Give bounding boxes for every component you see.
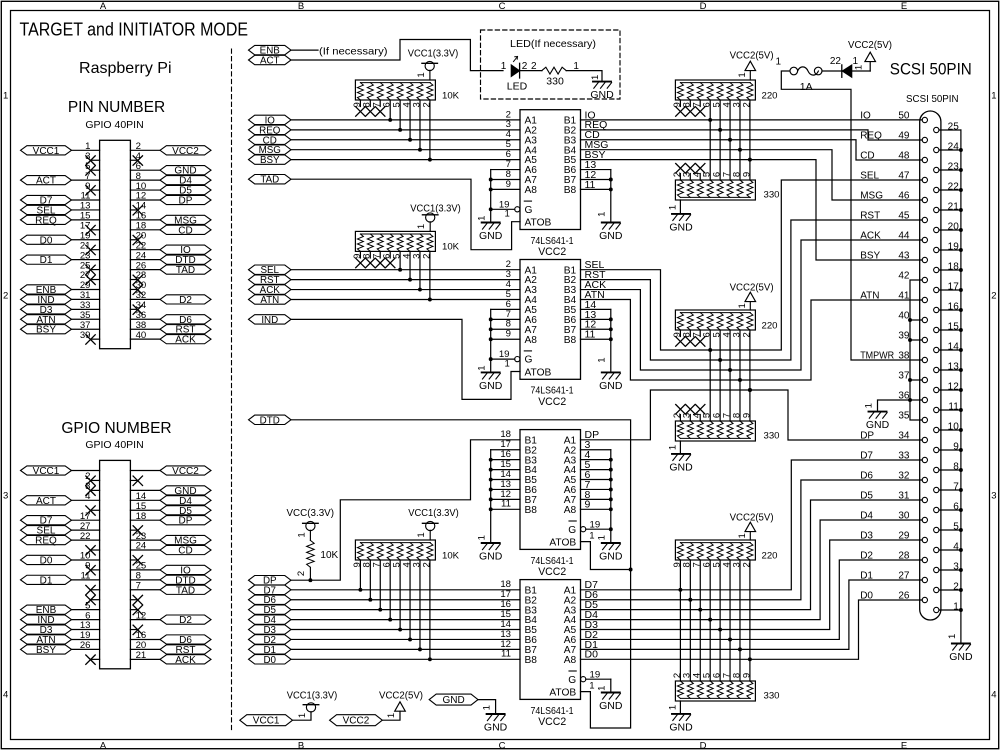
J2 wire right pin row 8 xyxy=(130,539,160,541)
svg-text:4: 4 xyxy=(953,541,959,552)
ground RN9 xyxy=(672,713,690,715)
svg-text:24: 24 xyxy=(948,141,960,152)
svg-text:4: 4 xyxy=(3,690,8,701)
RN6 330 unused pin no-connect xyxy=(686,405,695,414)
svg-text:ACK: ACK xyxy=(860,230,881,241)
svg-text:D2: D2 xyxy=(179,615,192,626)
svg-text:10: 10 xyxy=(948,421,960,432)
svg-text:22: 22 xyxy=(830,56,842,67)
J2 wire right pin row 19 xyxy=(130,648,160,650)
J3 pin 18 wire and number xyxy=(939,269,961,271)
svg-text:ATN: ATN xyxy=(860,290,879,301)
svg-text:4: 4 xyxy=(991,690,996,701)
J3 pin 21 contact xyxy=(934,207,939,212)
svg-text:1: 1 xyxy=(737,72,748,77)
svg-text:ACK: ACK xyxy=(175,655,196,666)
J1 no-connect left row 20 xyxy=(91,338,100,340)
svg-text:10K: 10K xyxy=(442,550,460,561)
J1 wire left pin row 18 xyxy=(72,318,100,320)
ground LED circuit xyxy=(593,81,611,83)
svg-text:40: 40 xyxy=(136,330,147,341)
J2 pin row 1 left label VCC1 xyxy=(21,466,72,475)
J1 wire right pin row 1 xyxy=(130,149,160,151)
resistor network RN7 10K body xyxy=(355,540,435,560)
svg-text:43: 43 xyxy=(898,250,910,261)
J2 pin row 3 right label GND xyxy=(160,486,211,495)
RN4 unused pin stubs xyxy=(359,251,361,258)
svg-text:10K: 10K xyxy=(442,242,460,253)
J3 pin 12 contact xyxy=(934,387,939,392)
J1 pin row 19 left label BSY xyxy=(21,325,72,334)
net IND (hexagon to U2 pin1 DIR) xyxy=(249,315,292,324)
svg-text:E: E xyxy=(901,1,907,12)
svg-text:1: 1 xyxy=(416,532,427,537)
svg-text:ATOB: ATOB xyxy=(549,687,576,698)
svg-text:GND: GND xyxy=(599,230,623,242)
J2 wire right pin row 6 xyxy=(130,519,160,521)
svg-text:VCC1(3.3V): VCC1(3.3V) xyxy=(287,691,338,702)
svg-text:VCC1: VCC1 xyxy=(253,716,280,727)
J1 pin row 10 left label D0 xyxy=(21,235,72,244)
svg-text:D1: D1 xyxy=(860,570,873,581)
J3 pin 2 wire and number xyxy=(939,589,961,591)
svg-text:B: B xyxy=(298,740,304,750)
svg-text:29: 29 xyxy=(898,530,910,541)
J1 no-connect right row 10 xyxy=(130,239,137,241)
svg-text:C: C xyxy=(499,740,506,750)
J3 ground spur from pin36 xyxy=(878,400,911,412)
RN5 220 unused pin no-connect xyxy=(696,337,705,346)
J1 pin row 16 left label IND xyxy=(21,295,72,304)
svg-text:1: 1 xyxy=(3,91,8,102)
wire diode to VCC2 xyxy=(852,70,870,72)
svg-text:D0: D0 xyxy=(263,655,276,666)
svg-text:330: 330 xyxy=(764,190,780,201)
svg-text:1: 1 xyxy=(416,72,427,77)
J2 pin row 4 right label D4 xyxy=(160,496,211,505)
J3 pin 23 contact xyxy=(934,167,939,172)
J3 pin 46 contact xyxy=(922,197,927,202)
U3 unused outputs A2-A8 to ground xyxy=(581,449,611,451)
J2 wire right pin row 20 xyxy=(130,658,160,660)
J3 pin 3 wire and number xyxy=(939,569,961,571)
U1 G wire xyxy=(491,208,515,210)
svg-text:TARGET and INITIATOR MODE: TARGET and INITIATOR MODE xyxy=(20,18,249,39)
svg-text:20: 20 xyxy=(948,221,960,232)
resistor network RN9 330 body xyxy=(675,681,755,701)
svg-text:ATOB: ATOB xyxy=(549,537,576,548)
J2 wire left pin row 1 xyxy=(72,470,100,472)
J2 no-connect right row 14 xyxy=(130,599,137,601)
J1 no-connect left row 5 xyxy=(91,189,100,191)
svg-text:MSG: MSG xyxy=(860,190,883,201)
svg-text:1: 1 xyxy=(947,634,958,639)
IC U2 74LS641-1 body xyxy=(520,260,581,380)
J3 pin 14 wire and number xyxy=(939,349,961,351)
J2 no-connect left row 13 xyxy=(91,589,100,591)
wire R5 to ground xyxy=(566,71,602,82)
J3 pin 25 wire and number xyxy=(939,129,961,131)
svg-text:330: 330 xyxy=(546,75,564,87)
J1 wire right pin row 3 xyxy=(130,169,160,171)
net ATN bus left xyxy=(249,295,292,304)
svg-text:GPIO NUMBER: GPIO NUMBER xyxy=(61,420,171,437)
svg-text:26: 26 xyxy=(80,640,91,651)
svg-text:D4: D4 xyxy=(860,510,873,521)
svg-text:4: 4 xyxy=(85,491,91,502)
svg-text:ACK: ACK xyxy=(175,335,196,346)
ground U4 right xyxy=(602,692,620,694)
svg-text:1: 1 xyxy=(504,358,509,369)
svg-text:A8: A8 xyxy=(564,505,577,516)
svg-text:220: 220 xyxy=(762,90,778,101)
svg-text:9: 9 xyxy=(741,413,752,418)
J3 pin 15 wire and number xyxy=(939,329,961,331)
svg-text:22: 22 xyxy=(80,531,91,542)
J1 pin row 7 left label SEL xyxy=(21,205,72,214)
svg-text:7: 7 xyxy=(136,580,141,591)
svg-text:VCC2(5V): VCC2(5V) xyxy=(730,513,774,524)
svg-text:ATOB: ATOB xyxy=(525,218,552,229)
J1 wire left pin row 15 xyxy=(72,288,100,290)
svg-text:1: 1 xyxy=(477,365,488,370)
svg-text:GND: GND xyxy=(599,700,623,712)
svg-text:GND: GND xyxy=(599,380,623,392)
J3 pin 5 contact xyxy=(934,527,939,532)
J3 pin 16 contact xyxy=(934,307,939,312)
svg-text:45: 45 xyxy=(898,210,910,221)
J2 wire right pin row 3 xyxy=(130,489,160,491)
J1 pin row 3 right label GND xyxy=(160,166,211,175)
net BSY bus left xyxy=(249,155,292,164)
svg-text:1: 1 xyxy=(477,535,488,540)
net MSG B-side (to SCSI pin46) xyxy=(581,150,923,200)
RN2 unused pin stubs xyxy=(679,100,681,107)
svg-text:ACT: ACT xyxy=(36,496,56,507)
J1 wire left pin row 19 xyxy=(72,328,100,330)
J3 ground gang pins 42/40/39/37/36/35 xyxy=(910,280,922,420)
RN4 pull wires to SEL/RST/ACK/ATN xyxy=(399,251,401,269)
svg-text:49: 49 xyxy=(898,130,910,141)
svg-text:1: 1 xyxy=(597,357,608,362)
svg-text:1: 1 xyxy=(597,212,608,217)
J3 pin 8 wire and number xyxy=(939,469,961,471)
J2 wire right pin row 13 xyxy=(130,589,160,591)
J1 wire left pin row 17 xyxy=(72,308,100,310)
svg-text:3: 3 xyxy=(991,491,996,502)
svg-text:2: 2 xyxy=(296,571,307,576)
svg-text:VCC2(5V): VCC2(5V) xyxy=(848,40,892,51)
svg-text:C: C xyxy=(499,1,506,12)
svg-text:28: 28 xyxy=(898,550,910,561)
U2 G wire xyxy=(491,358,515,360)
J3 pin 13 wire and number xyxy=(939,369,961,371)
svg-text:VCC2(5V): VCC2(5V) xyxy=(379,691,423,702)
svg-text:CD: CD xyxy=(178,546,192,557)
net TAD (hexagon to U1 pin1 DIR) xyxy=(249,175,292,184)
RN3 330 unused pin no-connect xyxy=(686,164,695,173)
J2 wire left pin row 8 xyxy=(72,539,100,541)
svg-text:E: E xyxy=(901,740,907,750)
RN2 220 unused pin no-connect xyxy=(686,107,695,116)
net MSG bus left xyxy=(249,145,292,154)
J3 pin 22 contact xyxy=(934,187,939,192)
net D0 bus left (hexagon to U4.B8) xyxy=(249,655,292,664)
J3 pin 41 contact xyxy=(922,297,927,302)
J3 pin 4 contact xyxy=(934,547,939,552)
J2 pin row 5 right label D5 xyxy=(160,506,211,515)
svg-text:VCC2: VCC2 xyxy=(538,396,566,408)
net IO B-side (U1.B1 to SCSI pin50) xyxy=(581,119,923,121)
svg-text:1: 1 xyxy=(501,61,507,72)
J2 pin row 1 right label VCC2 xyxy=(160,466,211,475)
J2 wire left pin row 15 xyxy=(72,609,100,611)
J3 pin 13 contact xyxy=(934,367,939,372)
svg-text:B8: B8 xyxy=(525,505,538,516)
svg-text:BSY: BSY xyxy=(36,325,56,336)
svg-text:2: 2 xyxy=(741,102,752,107)
svg-text:35: 35 xyxy=(898,410,910,421)
RN7 pull wires to D7..D0 xyxy=(359,560,361,590)
J1 no-connect right row 2 xyxy=(130,159,137,161)
J1 pin row 1 right label VCC2 xyxy=(160,146,211,155)
J3 pin 9 wire and number xyxy=(939,449,961,451)
J3 pin 34 contact xyxy=(922,437,927,442)
svg-text:34: 34 xyxy=(898,430,910,441)
svg-text:CD: CD xyxy=(178,225,192,236)
svg-text:10K: 10K xyxy=(442,90,460,101)
svg-text:22: 22 xyxy=(948,181,960,192)
svg-text:VCC2: VCC2 xyxy=(343,716,370,727)
svg-text:48: 48 xyxy=(898,150,910,161)
svg-text:BSY: BSY xyxy=(36,645,56,656)
J1 wire left pin row 10 xyxy=(72,239,100,241)
J1 pin row 15 left label ENB xyxy=(21,285,72,294)
net CD B-side (to SCSI pin48) xyxy=(581,140,923,160)
net ENB (hexagon, if necessary) xyxy=(249,45,292,54)
svg-text:VCC1(3.3V): VCC1(3.3V) xyxy=(408,508,459,519)
svg-text:12: 12 xyxy=(948,381,960,392)
svg-text:SCSI 50PIN: SCSI 50PIN xyxy=(906,93,959,105)
J2 wire left pin row 12 xyxy=(72,579,100,581)
RN4 10K unused pin no-connect xyxy=(366,258,375,267)
svg-text:2: 2 xyxy=(421,562,432,567)
J1 pin row 18 right label D6 xyxy=(160,315,211,324)
J2 wire left pin row 17 xyxy=(72,629,100,631)
connector J3 body xyxy=(920,111,941,620)
J2 pin row 13 right label TAD xyxy=(160,585,211,594)
svg-text:VCC2: VCC2 xyxy=(172,466,199,477)
svg-text:D2: D2 xyxy=(179,295,192,306)
connector J1 body xyxy=(100,140,131,348)
J3 pin 38 contact xyxy=(922,357,927,362)
net SEL B-side (U2.B1 to SCSI pin47) xyxy=(581,180,923,350)
J2 wire left pin row 4 xyxy=(72,499,100,501)
net SEL bus left (hexagon to U2.A1) xyxy=(249,265,292,274)
J3 pin 7 contact xyxy=(934,487,939,492)
svg-text:18: 18 xyxy=(136,511,147,522)
svg-text:26: 26 xyxy=(898,590,910,601)
J3 pin 9 contact xyxy=(934,447,939,452)
RN5 unused pin stubs xyxy=(679,330,681,337)
svg-text:TAD: TAD xyxy=(260,175,279,186)
svg-text:32: 32 xyxy=(898,470,910,481)
J2 wire right pin row 18 xyxy=(130,638,160,640)
RN4 10K unused pin no-connect xyxy=(376,258,385,267)
legend net VCC2 hexagon xyxy=(330,715,383,726)
svg-text:B: B xyxy=(298,1,304,12)
svg-text:1: 1 xyxy=(590,75,601,80)
svg-text:1: 1 xyxy=(477,216,488,221)
J3 pin 20 wire and number xyxy=(939,229,961,231)
RN6 330 unused pin no-connect xyxy=(696,405,705,414)
diode LED1 symbol xyxy=(511,65,519,77)
IC U1 74LS641-1 body xyxy=(520,110,581,230)
net D3 bus left (hexagon to U4.B5) xyxy=(249,625,292,634)
svg-text:2: 2 xyxy=(531,61,537,72)
J2 wire left pin row 16 xyxy=(72,619,100,621)
J1 pin row 8 left label REQ xyxy=(21,215,72,224)
svg-text:DP: DP xyxy=(860,430,874,441)
RN6 unused pin stubs xyxy=(679,415,681,422)
svg-text:REQ: REQ xyxy=(35,215,57,226)
J3 pin 28 contact xyxy=(922,557,927,562)
svg-text:VCC2(5V): VCC2(5V) xyxy=(730,283,774,294)
svg-text:39: 39 xyxy=(80,330,91,341)
svg-text:1A: 1A xyxy=(800,81,813,93)
J3 pin 45 contact xyxy=(922,217,927,222)
J3 pin 10 contact xyxy=(934,427,939,432)
diode D1 symbol xyxy=(841,65,843,77)
svg-text:BSY: BSY xyxy=(860,250,880,261)
svg-text:2: 2 xyxy=(421,102,432,107)
svg-text:G: G xyxy=(525,205,533,216)
U3 pin1 DIR wire to DTD xyxy=(581,542,631,570)
RN4 10K unused pin no-connect xyxy=(386,258,395,267)
J1 pin row 4 right label D4 xyxy=(160,176,211,185)
J1 pin row 5 right label D5 xyxy=(160,185,211,194)
svg-text:42: 42 xyxy=(898,270,910,281)
ground U3 left xyxy=(482,542,500,544)
J3 pin 6 wire and number xyxy=(939,509,961,511)
svg-text:1: 1 xyxy=(589,681,594,692)
J2 pin row 19 right label RST xyxy=(160,645,211,654)
J2 pin row 8 right label MSG xyxy=(160,535,211,544)
net RST B-side (to SCSI pin45) xyxy=(581,220,923,360)
svg-text:23: 23 xyxy=(948,161,960,172)
svg-text:D0: D0 xyxy=(40,555,53,566)
svg-text:24: 24 xyxy=(136,541,147,552)
J2 wire right pin row 1 xyxy=(130,470,160,472)
resistor network RN4 10K body xyxy=(355,231,435,251)
J1 no-connect left row 11 xyxy=(91,249,100,251)
ground SCSI pin36 xyxy=(869,411,887,413)
svg-text:1: 1 xyxy=(667,445,678,450)
svg-text:VCC(3.3V): VCC(3.3V) xyxy=(287,508,335,519)
RN1 unused pin no-connect xyxy=(376,107,385,116)
net DP A-side (U3.A1 to RN5/RN6 and SCSI pin34) xyxy=(581,390,923,440)
svg-text:REQ: REQ xyxy=(35,536,57,547)
resistor network RN1 body xyxy=(355,80,435,100)
svg-text:GND: GND xyxy=(669,722,693,734)
RN5 220 unused pin no-connect xyxy=(686,337,695,346)
J3 pin 29 contact xyxy=(922,537,927,542)
svg-text:A: A xyxy=(100,1,107,12)
J2 no-connect right row 7 xyxy=(130,529,137,531)
svg-text:GND: GND xyxy=(669,462,693,474)
svg-text:A8: A8 xyxy=(525,185,538,196)
J2 pin row 16 left label IND xyxy=(21,615,72,624)
svg-text:PIN NUMBER: PIN NUMBER xyxy=(68,99,165,116)
J1 wire right pin row 20 xyxy=(130,338,160,340)
J2 no-connect left row 3 xyxy=(91,489,100,491)
net D4 bus left (hexagon to U4.B4) xyxy=(249,615,292,624)
J3 pin 15 contact xyxy=(934,327,939,332)
svg-text:GND: GND xyxy=(590,89,614,101)
svg-text:D0: D0 xyxy=(860,590,873,601)
svg-text:17: 17 xyxy=(948,281,960,292)
J3 pin 7 wire and number xyxy=(939,489,961,491)
RN3 330 unused pin no-connect xyxy=(696,164,705,173)
J3 pin 48 contact xyxy=(922,157,927,162)
J1 wire left pin row 4 xyxy=(72,179,100,181)
J1 pin row 18 left label ATN xyxy=(21,315,72,324)
J1 no-connect right row 7 xyxy=(130,209,137,211)
svg-text:VCC1: VCC1 xyxy=(33,146,60,157)
svg-text:2: 2 xyxy=(953,581,959,592)
svg-text:ATOB: ATOB xyxy=(525,367,552,378)
net D2 bus left (hexagon to U4.B6) xyxy=(249,635,292,644)
separator dashed line xyxy=(231,49,233,731)
svg-text:GPIO 40PIN: GPIO 40PIN xyxy=(85,119,143,131)
J1 pin row 1 left label VCC1 xyxy=(21,146,72,155)
J3 pin 49 contact xyxy=(922,137,927,142)
ground RN3 xyxy=(672,213,690,215)
svg-text:G: G xyxy=(525,355,533,366)
svg-text:D1: D1 xyxy=(40,255,53,266)
J3 pin 40 contact xyxy=(922,317,927,322)
connector J2 body xyxy=(100,460,131,668)
svg-text:19: 19 xyxy=(948,241,960,252)
svg-text:D6: D6 xyxy=(860,470,873,481)
svg-text:DP: DP xyxy=(179,196,193,207)
svg-text:VCC2: VCC2 xyxy=(172,146,199,157)
svg-text:30: 30 xyxy=(898,510,910,521)
J1 pin row 19 right label RST xyxy=(160,325,211,334)
J3 pin 31 contact xyxy=(922,497,927,502)
legend wire VCC2 xyxy=(382,711,400,720)
J2 no-connect left row 5 xyxy=(91,509,100,511)
svg-text:D3: D3 xyxy=(860,530,873,541)
svg-text:16: 16 xyxy=(948,301,960,312)
J3 pin 8 contact xyxy=(934,467,939,472)
J3 pin 17 wire and number xyxy=(939,289,961,291)
svg-text:1: 1 xyxy=(416,224,427,229)
J2 pin row 9 right label CD xyxy=(160,545,211,554)
RN5 220 unused pin no-connect xyxy=(676,337,685,346)
J3 pin 32 contact xyxy=(922,477,927,482)
J2 pin row 16 right label D2 xyxy=(160,615,211,624)
svg-text:VCC1: VCC1 xyxy=(33,466,60,477)
J3 pin 3 contact xyxy=(934,567,939,572)
ground U1 right xyxy=(602,222,620,224)
svg-text:B8: B8 xyxy=(525,655,538,666)
J2 pin row 12 right label DTD xyxy=(160,575,211,584)
J1 wire right pin row 18 xyxy=(130,318,160,320)
svg-text:1: 1 xyxy=(386,713,397,718)
J2 no-connect left row 20 xyxy=(91,658,100,660)
svg-text:D0: D0 xyxy=(40,235,53,246)
